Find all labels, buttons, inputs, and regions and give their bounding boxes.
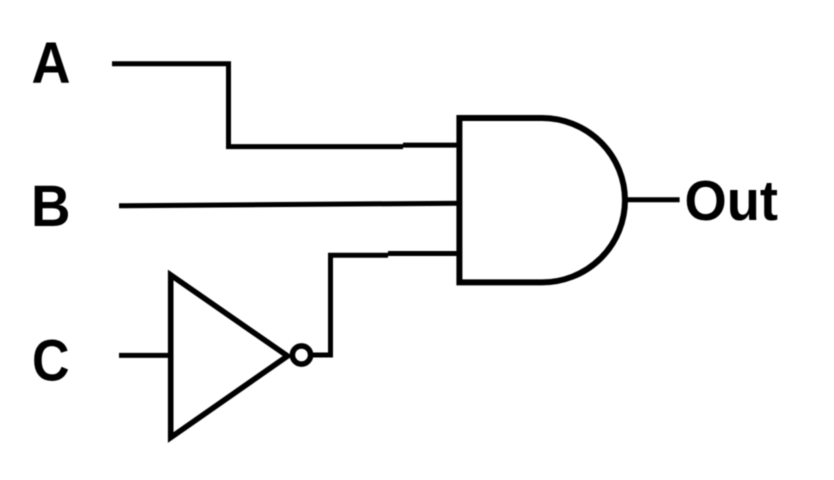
- wire A: [112, 64, 403, 147]
- svg-text:A: A: [32, 31, 71, 96]
- wire C: [119, 353, 171, 358]
- inverter bubble: [292, 346, 310, 364]
- wire jog into AND gate bottom input: [388, 251, 461, 256]
- svg-text:B: B: [31, 174, 71, 239]
- svg-text:Out: Out: [685, 169, 779, 233]
- wire inverter output up to jog: [313, 255, 388, 355]
- wire A jog into AND gate: [403, 143, 461, 148]
- inverter U1 triangle: [171, 275, 288, 438]
- wire B: [119, 203, 461, 206]
- svg-text:C: C: [32, 329, 70, 394]
- AND gate U2: [459, 118, 625, 282]
- wire Out: [626, 197, 680, 202]
